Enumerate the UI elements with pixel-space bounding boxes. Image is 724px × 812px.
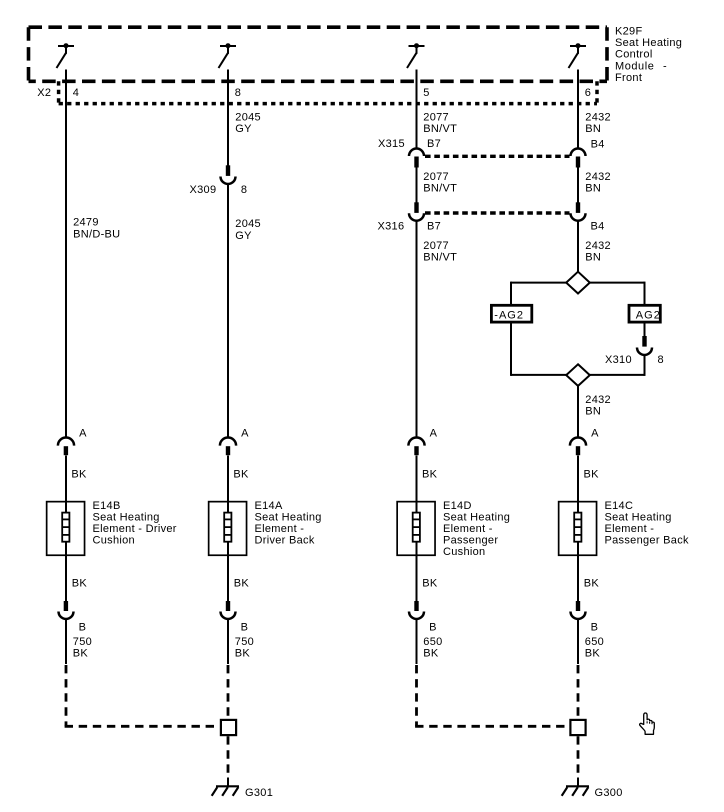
svg-text:A: A — [430, 427, 438, 439]
svg-text:BK: BK — [584, 468, 600, 480]
wire 4 dashed ground lead — [577, 665, 580, 719]
wire 3 segment element to B — [416, 543, 418, 602]
inline connector X310 — [637, 336, 652, 355]
wire 3 segment X316 to terminal A — [416, 221, 418, 438]
svg-text:Control: Control — [615, 49, 653, 61]
svg-text:BK: BK — [422, 577, 438, 589]
svg-text:BN/VT: BN/VT — [423, 183, 457, 195]
wire 1 label 750 BK — [73, 636, 92, 660]
wire 3 solid below B — [416, 620, 418, 665]
svg-text:B: B — [79, 621, 87, 633]
terminal A wire 3 — [408, 437, 424, 455]
switch contact pin 6 — [569, 43, 587, 68]
wire 2 ground stub — [227, 778, 229, 787]
svg-text:BN/VT: BN/VT — [423, 123, 457, 135]
svg-text:BK: BK — [234, 577, 250, 589]
wire 2 segment from pin 8 to X309 — [227, 70, 229, 167]
terminal B wire 3 — [409, 601, 424, 619]
svg-text:E14C: E14C — [605, 500, 634, 512]
wire 4 segment from pin 6 — [577, 70, 579, 150]
svg-text:2077: 2077 — [423, 112, 449, 124]
ground G301 — [212, 786, 239, 796]
switch contact pin 5 — [407, 43, 425, 68]
heating element E14B label — [93, 500, 177, 547]
svg-text:Element -: Element - — [443, 523, 493, 535]
wire 4 segment A to element — [577, 456, 579, 513]
wire 2 solid below B — [227, 620, 229, 665]
svg-text:Passenger Back: Passenger Back — [605, 535, 689, 547]
svg-text:-: - — [663, 60, 667, 72]
svg-text:AG2: AG2 — [636, 309, 661, 321]
wire 4 connector half B4 lower — [571, 202, 586, 220]
inline connector X309 — [221, 165, 236, 184]
svg-text:4: 4 — [73, 87, 79, 99]
svg-text:2077: 2077 — [423, 171, 449, 183]
svg-text:B: B — [241, 621, 249, 633]
wire 2 segment element to B — [227, 543, 229, 602]
svg-text:B4: B4 — [591, 221, 605, 233]
svg-text:2432: 2432 — [585, 394, 611, 406]
module K29F dashed box — [29, 27, 608, 81]
svg-text:2045: 2045 — [235, 112, 261, 124]
splice box S300 — [570, 720, 585, 735]
branch wire right horizontal — [590, 282, 645, 284]
wire 4 connector half B4 upper — [571, 149, 586, 168]
svg-text:2432: 2432 — [585, 240, 611, 252]
terminal B wire 2 — [221, 601, 236, 619]
wire 4 segment between connectors — [577, 168, 579, 203]
element -AG2 box — [491, 305, 531, 322]
svg-text:X2: X2 — [37, 87, 51, 99]
inline connector X315 half on wire 3 — [409, 149, 424, 168]
svg-text:X316: X316 — [378, 221, 405, 233]
wire 3 segment A to element — [416, 456, 418, 513]
svg-text:Cushion: Cushion — [93, 535, 135, 547]
splice box S301 — [221, 720, 236, 735]
svg-text:Seat Heating: Seat Heating — [615, 37, 682, 49]
splice diamond bottom — [566, 364, 590, 386]
svg-text:BN: BN — [585, 183, 601, 195]
svg-text:Seat Heating: Seat Heating — [443, 511, 510, 523]
svg-text:Seat Heating: Seat Heating — [255, 511, 322, 523]
svg-text:650: 650 — [423, 636, 442, 648]
branch wire left vertical lower — [510, 323, 512, 376]
splice diamond top — [566, 272, 590, 294]
svg-text:-AG2: -AG2 — [494, 309, 524, 321]
ground G300 — [562, 786, 589, 796]
wire 3 dashed ground lead — [415, 665, 569, 726]
branch wire bottom left horizontal — [511, 374, 567, 376]
svg-text:Seat Heating: Seat Heating — [605, 511, 672, 523]
svg-text:2479: 2479 — [73, 216, 99, 228]
svg-text:Front: Front — [615, 72, 642, 84]
svg-text:A: A — [79, 427, 87, 439]
branch wire left vertical upper — [510, 282, 512, 306]
svg-text:Passenger: Passenger — [443, 535, 498, 547]
wire 3 segment X315 to X316 — [416, 168, 418, 203]
svg-text:G300: G300 — [595, 787, 623, 799]
svg-text:B7: B7 — [427, 221, 441, 233]
svg-text:X315: X315 — [378, 138, 405, 150]
wire 2 label 750 BK — [235, 636, 254, 660]
terminal B wire 1 — [59, 601, 74, 619]
wire 4 label 2432 BN row 4 — [585, 394, 611, 418]
svg-text:G301: G301 — [245, 787, 273, 799]
svg-text:BK: BK — [235, 647, 251, 659]
svg-text:GY: GY — [235, 123, 252, 135]
mouse cursor — [640, 713, 655, 734]
wire 2 dashed ground lead — [227, 665, 230, 719]
svg-text:2045: 2045 — [235, 218, 261, 230]
svg-text:BN: BN — [585, 406, 601, 418]
svg-text:750: 750 — [73, 636, 92, 648]
wire 1 upper segment — [65, 70, 67, 439]
wire 4 label 2432 BN row 2 — [585, 171, 611, 195]
svg-text:650: 650 — [585, 636, 604, 648]
svg-text:6: 6 — [585, 87, 591, 99]
svg-text:B: B — [429, 621, 437, 633]
wire 4 label 2432 BN row 1 — [585, 112, 611, 136]
inline connector X316 half on wire 3 — [409, 202, 424, 220]
connector X2 dotted strip — [59, 81, 597, 103]
svg-text:Module: Module — [615, 60, 654, 72]
svg-text:BK: BK — [423, 647, 439, 659]
terminal A wire 4 — [570, 438, 586, 456]
svg-text:A: A — [241, 427, 249, 439]
svg-text:BN/VT: BN/VT — [423, 251, 457, 263]
wire 1 label 2479 BN/D-BU — [73, 216, 120, 240]
wire 2 segment A to element — [227, 456, 229, 513]
wire 4 label 2432 BN row 3 — [585, 240, 611, 264]
wire 3 label 2077 BN/VT row 2 — [423, 171, 457, 195]
element AG2 box — [629, 305, 660, 322]
branch wire bottom right horizontal — [590, 374, 645, 376]
svg-text:BK: BK — [233, 468, 249, 480]
wire 1 dashed ground lead — [65, 665, 220, 726]
dotted harness line X315 row — [425, 155, 570, 158]
terminal A wire 2 — [220, 437, 236, 455]
wire 3 segment from pin 5 to X315 — [416, 70, 418, 150]
wire 4 dashed below splice — [577, 736, 580, 778]
switch contact pin 8 — [219, 43, 237, 68]
wire 2 segment from X309 to terminal A — [227, 185, 229, 439]
svg-text:Driver Back: Driver Back — [255, 535, 315, 547]
wire 4 ground stub — [577, 778, 579, 787]
svg-text:Element - Driver: Element - Driver — [93, 523, 177, 535]
svg-text:Cushion: Cushion — [443, 546, 485, 558]
svg-text:E14D: E14D — [443, 500, 472, 512]
svg-text:2077: 2077 — [423, 240, 449, 252]
heating element E14C label — [605, 500, 689, 547]
svg-text:2432: 2432 — [585, 171, 611, 183]
svg-text:BK: BK — [585, 647, 601, 659]
wire 4 segment below splice — [577, 386, 579, 438]
svg-text:5: 5 — [423, 87, 429, 99]
heating element E14D box — [397, 502, 435, 556]
svg-text:K29F: K29F — [615, 26, 643, 38]
svg-text:750: 750 — [235, 636, 254, 648]
terminal B wire 4 — [571, 601, 586, 619]
svg-text:BN: BN — [585, 123, 601, 135]
svg-text:X310: X310 — [605, 354, 632, 366]
svg-text:E14A: E14A — [255, 500, 283, 512]
terminal A wire 1 — [58, 438, 74, 456]
wire 4 solid below B — [577, 620, 579, 665]
svg-text:B4: B4 — [591, 139, 605, 151]
branch wire right vertical upper — [644, 282, 646, 306]
svg-text:BK: BK — [584, 577, 600, 589]
branch wire left horizontal — [511, 282, 567, 284]
svg-text:BK: BK — [73, 647, 89, 659]
heating element E14A box — [209, 502, 247, 556]
svg-text:B: B — [591, 621, 599, 633]
heating element E14B box — [47, 502, 85, 556]
wire 4 segment element to B — [577, 543, 579, 602]
heating element E14C box — [559, 502, 597, 556]
wire 3 label 2077 BN/VT row 3 — [423, 240, 457, 264]
wire 1 solid below B — [65, 620, 67, 665]
svg-text:A: A — [591, 427, 599, 439]
wire 3 label 2077 BN/VT row 1 — [423, 112, 457, 136]
wire 1 segment element to B — [65, 543, 67, 602]
wire 4 segment to top splice — [577, 221, 579, 272]
heating element E14D label — [443, 500, 510, 558]
svg-text:E14B: E14B — [93, 500, 121, 512]
svg-text:Element -: Element - — [255, 523, 305, 535]
svg-text:2432: 2432 — [585, 112, 611, 124]
svg-text:BN/D-BU: BN/D-BU — [73, 228, 120, 240]
wire 2 label 2045 GY lower — [235, 218, 261, 242]
svg-text:BK: BK — [422, 468, 438, 480]
svg-text:X309: X309 — [190, 184, 217, 196]
wire 3 label 650 BK — [423, 636, 442, 660]
svg-text:Seat Heating: Seat Heating — [93, 511, 160, 523]
svg-text:BK: BK — [72, 577, 88, 589]
heating element E14A label — [255, 500, 322, 547]
svg-text:8: 8 — [241, 184, 247, 196]
wire 2 label 2045 GY upper — [235, 112, 261, 136]
svg-text:B7: B7 — [427, 138, 441, 150]
svg-text:BK: BK — [71, 468, 87, 480]
svg-text:GY: GY — [235, 230, 252, 242]
svg-text:8: 8 — [235, 87, 241, 99]
switch contact pin 4 — [57, 43, 75, 68]
module K29F label — [615, 26, 682, 84]
svg-text:8: 8 — [658, 354, 664, 366]
wire 1 segment A to element — [65, 456, 67, 513]
wire 4 label 650 BK — [585, 636, 604, 660]
svg-text:BN: BN — [585, 251, 601, 263]
branch wire right vertical middle — [644, 323, 646, 337]
svg-text:Element -: Element - — [605, 523, 655, 535]
wire 2 dashed below splice — [227, 736, 230, 778]
dotted harness line X316 row — [425, 211, 570, 214]
branch wire right vertical lower — [644, 356, 646, 376]
